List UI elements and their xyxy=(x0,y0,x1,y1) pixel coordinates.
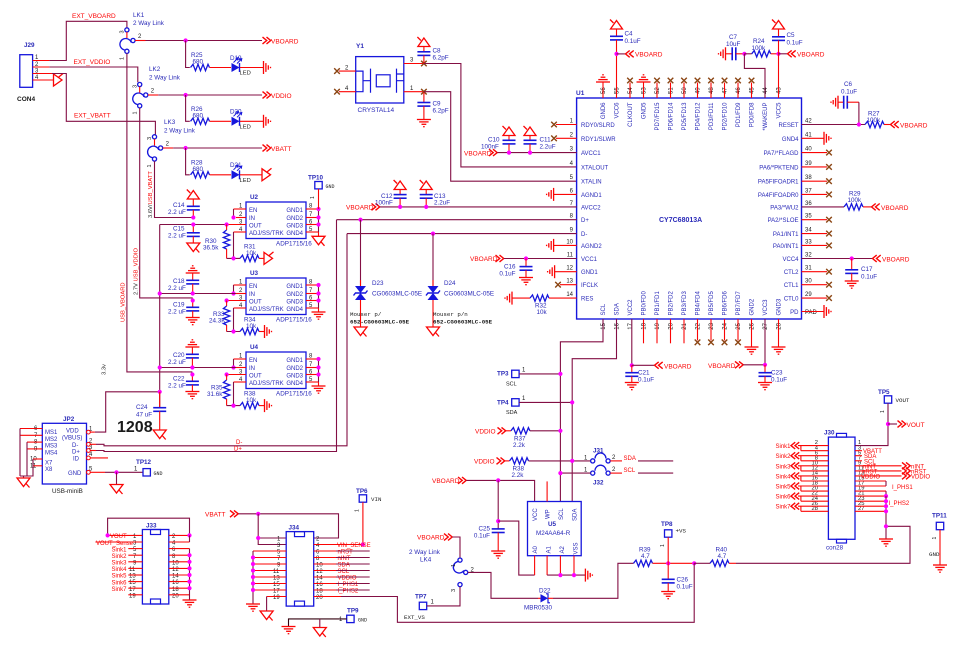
jumper J31 xyxy=(584,448,622,464)
svg-text:C19: C19 xyxy=(173,302,185,309)
svg-text:17: 17 xyxy=(273,589,280,595)
svg-text:AGND1: AGND1 xyxy=(581,193,602,199)
svg-text:20: 20 xyxy=(316,595,323,601)
svg-text:D+: D+ xyxy=(72,450,80,456)
net VDDIO arrow out xyxy=(902,473,910,480)
svg-text:J29: J29 xyxy=(24,42,35,49)
svg-text:C22: C22 xyxy=(173,376,185,383)
wire LK3 pin1 rail to U2 IN xyxy=(155,161,194,217)
U1 pin41 GND4 xyxy=(802,137,825,139)
svg-text:J30: J30 xyxy=(824,430,835,437)
wire U4 ADJ to R35/R36 node xyxy=(227,382,240,406)
svg-text:45: 45 xyxy=(750,87,756,94)
svg-text:C6: C6 xyxy=(844,81,853,88)
svg-text:GND2: GND2 xyxy=(286,216,303,222)
svg-text:C16: C16 xyxy=(504,264,516,271)
svg-text:Sink1: Sink1 xyxy=(775,444,791,450)
svg-text:11: 11 xyxy=(273,569,280,575)
svg-text:CTL0: CTL0 xyxy=(784,297,799,303)
svg-text:ID: ID xyxy=(73,457,80,463)
svg-text:GND: GND xyxy=(326,184,335,190)
svg-text:25: 25 xyxy=(736,322,742,329)
svg-text:10uF: 10uF xyxy=(726,41,741,48)
svg-text:0.1uF: 0.1uF xyxy=(841,89,857,96)
svg-text:CG0603MLC-05E: CG0603MLC-05E xyxy=(372,291,422,298)
wire JP2 MS pins to ground xyxy=(20,429,33,477)
svg-text:VBOARD: VBOARD xyxy=(882,257,910,264)
svg-text:1: 1 xyxy=(932,537,938,540)
svg-text:VBOARD: VBOARD xyxy=(881,205,909,212)
svg-text:Sink5: Sink5 xyxy=(111,574,127,580)
svg-text:20: 20 xyxy=(669,322,675,329)
svg-text:VBOARD: VBOARD xyxy=(635,52,663,59)
node junction row1 xyxy=(184,38,188,42)
wire U2 ADJ to R30/R31 node xyxy=(227,232,240,258)
svg-text:Sink4: Sink4 xyxy=(775,474,791,480)
svg-text:C4: C4 xyxy=(625,31,634,38)
svg-text:4.7: 4.7 xyxy=(641,553,650,560)
wire U3 ADJ to R33/R34 node xyxy=(227,308,240,332)
svg-text:10k: 10k xyxy=(537,309,548,316)
svg-text:PD6/FD14: PD6/FD14 xyxy=(669,102,675,131)
svg-text:PD2/FD10: PD2/FD10 xyxy=(723,102,729,131)
wire J34 pin19 to ground xyxy=(266,597,268,612)
net nINT arrow out xyxy=(902,462,910,469)
svg-text:GND4: GND4 xyxy=(782,137,799,143)
J34 pin stubs xyxy=(253,545,363,597)
svg-text:0.1uF: 0.1uF xyxy=(625,38,641,45)
svg-text:52: 52 xyxy=(655,87,661,94)
ground D23 xyxy=(354,327,367,337)
U1 bottom pin names and numbers xyxy=(601,290,783,329)
svg-text:MS2: MS2 xyxy=(45,437,58,443)
svg-text:0.1uF: 0.1uF xyxy=(771,377,787,384)
svg-text:+VS: +VS xyxy=(676,528,687,535)
U1 pin6 AGND1 xyxy=(554,193,577,195)
svg-text:I_PHS1: I_PHS1 xyxy=(338,582,359,588)
svg-text:VDDIO: VDDIO xyxy=(474,458,495,465)
wire J33 right ground rail rows 6-20 xyxy=(189,549,191,600)
svg-text:18: 18 xyxy=(316,589,323,595)
U1 pins 22-25 stubs with X xyxy=(695,319,741,345)
svg-text:CTL1: CTL1 xyxy=(784,283,799,289)
svg-text:ADJ/SS/TRK: ADJ/SS/TRK xyxy=(249,231,284,237)
ground for D20 xyxy=(264,115,271,128)
wire VBOARD row1 xyxy=(146,40,263,42)
svg-text:VBOARD: VBOARD xyxy=(271,39,299,46)
wire to R26 xyxy=(186,95,190,121)
svg-text:GND: GND xyxy=(358,618,367,624)
svg-text:0.1uF: 0.1uF xyxy=(677,584,693,591)
wire U5 A1-A2-VSS to ground xyxy=(547,574,585,576)
svg-text:USB-miniB: USB-miniB xyxy=(52,488,83,495)
2-way link LK3 xyxy=(147,119,196,168)
svg-text:X7: X7 xyxy=(45,461,53,467)
svg-text:Mouser p/: Mouser p/ xyxy=(350,311,382,318)
svg-text:PA5FIFOADR1: PA5FIFOADR1 xyxy=(758,180,799,186)
svg-text:38: 38 xyxy=(805,175,812,181)
svg-text:10: 10 xyxy=(316,563,323,569)
svg-text:EN: EN xyxy=(249,208,257,214)
svg-text:IN: IN xyxy=(249,292,255,298)
2-way link LK1 xyxy=(120,12,165,60)
net VDDIO arrow xyxy=(263,92,271,99)
wire SCL from pin15 xyxy=(560,319,603,502)
ground TP9 arrow xyxy=(313,628,326,638)
svg-text:3: 3 xyxy=(451,589,457,592)
svg-text:19: 19 xyxy=(273,595,280,601)
svg-text:WP: WP xyxy=(546,509,552,519)
net Sink1-7 labels J30 xyxy=(775,444,791,511)
svg-text:2 Way Link: 2 Way Link xyxy=(149,75,181,82)
svg-text:0.1uF: 0.1uF xyxy=(861,274,877,281)
svg-text:17: 17 xyxy=(628,322,634,329)
svg-text:GND3: GND3 xyxy=(286,374,303,380)
wire TP9 xyxy=(289,619,347,627)
U1 pins 31-29 stubs with X xyxy=(802,269,832,301)
wire U2 OUT rail down (VBUS) xyxy=(160,225,227,408)
svg-text:GND6: GND6 xyxy=(601,102,607,119)
svg-text:C8: C8 xyxy=(433,48,442,55)
svg-text:PA3/*WU2: PA3/*WU2 xyxy=(770,205,799,211)
svg-text:ADJ/SS/TRK: ADJ/SS/TRK xyxy=(249,307,284,313)
svg-text:PA0/INT1: PA0/INT1 xyxy=(773,244,799,250)
U1 pin13 IFCLK stub xyxy=(560,284,577,286)
svg-text:100nF: 100nF xyxy=(375,200,393,207)
svg-text:PD3/FD11: PD3/FD11 xyxy=(709,102,715,130)
U1 pin1 RDY0 stub xyxy=(556,124,577,126)
svg-text:12: 12 xyxy=(316,569,323,575)
svg-text:J34: J34 xyxy=(289,525,300,532)
svg-text:37: 37 xyxy=(805,188,812,194)
svg-text:2.2 uF: 2.2 uF xyxy=(168,359,186,366)
svg-text:26: 26 xyxy=(750,322,756,329)
net VBOARD at PA3 xyxy=(872,204,880,211)
svg-text:100nF: 100nF xyxy=(481,144,499,151)
svg-text:OUT: OUT xyxy=(249,374,262,380)
svg-text:0.1uF: 0.1uF xyxy=(787,40,803,47)
wire U1 D- pin9 xyxy=(347,233,577,235)
svg-text:VBATT: VBATT xyxy=(205,511,225,518)
wire U4 EN tie xyxy=(233,359,235,368)
J34 pin numbers xyxy=(273,537,323,602)
svg-text:CRYSTAL14: CRYSTAL14 xyxy=(358,107,395,114)
svg-text:SDA: SDA xyxy=(615,303,621,315)
svg-text:C9: C9 xyxy=(433,101,442,108)
svg-text:JP2: JP2 xyxy=(63,416,75,423)
svg-text:31: 31 xyxy=(805,266,812,272)
ground J33 xyxy=(183,600,197,607)
svg-text:35: 35 xyxy=(805,214,812,220)
svg-text:EXT_VS: EXT_VS xyxy=(404,614,425,621)
svg-text:GND3: GND3 xyxy=(777,298,783,315)
wire WAKEUP pin44 xyxy=(744,54,765,98)
ground JP2 shell xyxy=(17,478,30,488)
wire VBATT xyxy=(239,514,339,538)
svg-text:1: 1 xyxy=(132,111,138,114)
svg-text:LK1: LK1 xyxy=(133,12,145,19)
svg-text:VSS: VSS xyxy=(574,542,580,554)
jumper J32 xyxy=(558,465,622,486)
svg-text:0.1uF: 0.1uF xyxy=(499,271,515,278)
svg-text:VOUT: VOUT xyxy=(907,422,925,429)
svg-text:LED: LED xyxy=(240,124,251,130)
wire J30 I_PHS1 pair xyxy=(885,481,887,486)
svg-text:2.2 uF: 2.2 uF xyxy=(168,233,186,240)
svg-text:GND: GND xyxy=(154,471,163,477)
svg-text:1: 1 xyxy=(147,164,153,167)
svg-text:24: 24 xyxy=(723,322,729,329)
svg-text:MS4: MS4 xyxy=(45,450,58,456)
regulator U3 ADP1715 xyxy=(227,270,319,324)
svg-text:IFCLK: IFCLK xyxy=(581,283,598,289)
svg-text:TP9: TP9 xyxy=(347,608,359,615)
wire J30 I_PHS2 pair xyxy=(885,491,887,496)
svg-text:RESET: RESET xyxy=(778,123,798,129)
U1 pin10 AGND2 xyxy=(554,244,577,246)
svg-text:C15: C15 xyxy=(173,226,185,233)
svg-text:12: 12 xyxy=(566,266,573,272)
svg-text:PAD: PAD xyxy=(805,310,818,316)
wire J34 net rows xyxy=(336,551,370,590)
svg-text:Y1: Y1 xyxy=(356,43,364,50)
svg-text:TP3: TP3 xyxy=(497,371,509,378)
svg-text:D22: D22 xyxy=(539,588,551,595)
svg-text:OUT: OUT xyxy=(249,224,262,230)
svg-text:MS3: MS3 xyxy=(45,444,58,450)
svg-text:D-: D- xyxy=(581,232,587,238)
svg-text:I_PHS1: I_PHS1 xyxy=(892,485,913,491)
wire LK4 pin2 to D22 xyxy=(468,572,538,598)
U1 top pin names and numbers xyxy=(601,87,783,131)
svg-text:AGND2: AGND2 xyxy=(581,244,602,250)
wire to R25 xyxy=(186,41,190,68)
svg-text:36: 36 xyxy=(805,201,812,207)
svg-text:Sink5: Sink5 xyxy=(775,485,791,491)
svg-text:PB1/FD1: PB1/FD1 xyxy=(655,290,661,315)
svg-text:VIN: VIN xyxy=(371,496,382,503)
svg-text:TP6: TP6 xyxy=(356,488,368,495)
svg-text:29: 29 xyxy=(805,292,812,298)
svg-text:2.7V USB_VDDIO: 2.7V USB_VDDIO xyxy=(133,247,139,295)
svg-text:ADJ/SS/TRK: ADJ/SS/TRK xyxy=(249,381,284,387)
svg-text:652-CG0603MLC-05E: 652-CG0603MLC-05E xyxy=(350,319,410,326)
wire U3 IN from VBUS rail xyxy=(160,293,236,295)
svg-text:4.7: 4.7 xyxy=(718,553,727,560)
svg-text:2.2uF: 2.2uF xyxy=(540,144,556,151)
svg-text:VDDIO: VDDIO xyxy=(861,474,880,480)
svg-text:VDDIO: VDDIO xyxy=(271,93,292,100)
svg-text:GND1: GND1 xyxy=(286,208,303,214)
svg-text:D-: D- xyxy=(72,443,78,449)
wire U2 GND rail xyxy=(318,209,320,232)
svg-text:D23: D23 xyxy=(372,280,384,287)
svg-text:39: 39 xyxy=(805,161,812,167)
svg-text:IN: IN xyxy=(249,366,255,372)
svg-text:(VBUS): (VBUS) xyxy=(62,436,82,442)
svg-text:3: 3 xyxy=(132,85,138,88)
wire R40 to J30 xyxy=(736,526,910,563)
J33 pin stubs xyxy=(95,535,189,594)
svg-text:SCL: SCL xyxy=(506,382,517,388)
net VBOARD at VCC2 xyxy=(632,364,654,366)
ground at R36 xyxy=(265,399,272,412)
svg-text:VCC2: VCC2 xyxy=(628,299,634,316)
svg-text:33: 33 xyxy=(805,239,812,245)
svg-text:GND1: GND1 xyxy=(286,358,303,364)
svg-text:36.5k: 36.5k xyxy=(203,245,219,252)
net VBOARD at VCC6 xyxy=(617,53,626,55)
svg-text:42: 42 xyxy=(805,119,812,125)
svg-text:PA2/*SLOE: PA2/*SLOE xyxy=(768,218,799,224)
svg-text:2.2k: 2.2k xyxy=(512,472,525,479)
J33 pin numbers xyxy=(129,534,179,599)
svg-text:2 Way Link: 2 Way Link xyxy=(133,20,165,27)
svg-text:J32: J32 xyxy=(593,480,604,487)
svg-text:2.2 uF: 2.2 uF xyxy=(168,285,186,292)
svg-text:55: 55 xyxy=(615,87,621,94)
svg-text:2.2 uF: 2.2 uF xyxy=(168,309,186,316)
svg-text:2 Way Link: 2 Way Link xyxy=(164,128,196,135)
svg-text:40: 40 xyxy=(805,147,812,153)
wire EXT_VBOARD xyxy=(49,21,127,60)
power arrow at R31 xyxy=(264,252,274,265)
svg-text:CY7C68013A: CY7C68013A xyxy=(659,217,702,224)
svg-text:3: 3 xyxy=(120,30,126,33)
svg-text:IN: IN xyxy=(249,216,255,222)
U1 pin2 RDY1 stub xyxy=(556,137,577,139)
svg-text:VOUT: VOUT xyxy=(896,397,910,404)
wire VBATT row3 xyxy=(173,147,262,149)
svg-text:VBOARD: VBOARD xyxy=(417,535,445,542)
svg-text:VBOARD: VBOARD xyxy=(470,256,498,263)
svg-text:C14: C14 xyxy=(173,202,185,209)
ground U3 xyxy=(312,312,326,319)
node junction row3 xyxy=(184,146,188,150)
wire EXT_VDDIO xyxy=(49,67,137,82)
wire D- from JP2 to U1 xyxy=(96,234,347,446)
svg-text:Sink2: Sink2 xyxy=(775,454,791,460)
svg-text:TP4: TP4 xyxy=(497,400,509,407)
svg-text:Sink3: Sink3 xyxy=(111,561,127,567)
svg-text:GND5: GND5 xyxy=(642,102,648,119)
U1 pin12 GND1 xyxy=(555,271,577,273)
svg-text:XTALOUT: XTALOUT xyxy=(581,165,609,171)
wire EXT_VBATT xyxy=(52,74,155,135)
wire JP2 GND to TP12 xyxy=(105,471,143,473)
svg-text:U2: U2 xyxy=(250,194,259,201)
svg-text:ADP1715/16: ADP1715/16 xyxy=(276,317,312,324)
svg-text:VDDIO: VDDIO xyxy=(475,428,496,435)
ground U2 xyxy=(312,236,325,246)
net VBOARD at VCC5 xyxy=(779,53,788,55)
svg-text:con28: con28 xyxy=(826,545,844,552)
J30 right stubs xyxy=(855,451,902,512)
connector J30 con28 xyxy=(824,430,855,552)
svg-text:1: 1 xyxy=(880,410,886,413)
svg-text:31.6k: 31.6k xyxy=(207,391,223,398)
svg-text:41: 41 xyxy=(805,132,812,138)
net VBOARD arrow xyxy=(263,37,271,44)
svg-text:GND1: GND1 xyxy=(286,284,303,290)
node crystal pin1 xyxy=(421,89,427,95)
svg-text:C5: C5 xyxy=(787,32,796,39)
svg-text:44: 44 xyxy=(763,87,769,94)
svg-text:U4: U4 xyxy=(250,344,259,351)
no-connect X crystal pin4 xyxy=(334,89,340,95)
svg-text:Sink7: Sink7 xyxy=(775,505,791,511)
U1 PAD pin ground xyxy=(802,311,825,313)
svg-text:Sink1: Sink1 xyxy=(111,547,127,553)
svg-text:21: 21 xyxy=(682,322,688,329)
svg-text:GND3: GND3 xyxy=(286,224,303,230)
ground GND3 pin28 xyxy=(778,319,780,347)
wire U2 EN tie xyxy=(233,209,235,218)
wire U4 IN from VBUS rail xyxy=(160,367,236,369)
svg-text:3.3v: 3.3v xyxy=(102,364,108,375)
svg-text:13: 13 xyxy=(566,279,573,285)
svg-text:0.1uF: 0.1uF xyxy=(638,377,654,384)
svg-text:C24: C24 xyxy=(136,404,148,411)
svg-text:18: 18 xyxy=(642,322,648,329)
svg-text:I_PHS2: I_PHS2 xyxy=(889,501,910,507)
U1 pins 52-45 stubs with X xyxy=(654,78,754,98)
svg-text:1: 1 xyxy=(355,509,361,512)
svg-text:AVCC1: AVCC1 xyxy=(581,151,601,157)
regulator U4 ADP1715 xyxy=(227,344,319,398)
J30 left pin stubs and sink pairs xyxy=(798,446,828,512)
wire LK1 pin1 rail to U4 OUT (USB_VBOARD 3.3V) xyxy=(127,53,192,372)
svg-text:GND2: GND2 xyxy=(286,366,303,372)
svg-text:14: 14 xyxy=(566,292,573,298)
wire RESET pin42 xyxy=(802,102,866,124)
svg-text:XTALIN: XTALIN xyxy=(581,180,602,186)
svg-text:VCC6: VCC6 xyxy=(615,102,621,119)
ground U4 xyxy=(312,386,326,393)
wire U1 D+ pin8 xyxy=(337,219,577,221)
ground C24 xyxy=(153,430,166,440)
svg-text:VBOARD: VBOARD xyxy=(797,52,825,59)
svg-text:34: 34 xyxy=(805,228,812,234)
regulator U2 ADP1715 xyxy=(227,194,319,248)
svg-text:19: 19 xyxy=(655,322,661,329)
svg-text:32: 32 xyxy=(805,253,812,259)
svg-text:PD: PD xyxy=(790,310,799,316)
svg-text:C25: C25 xyxy=(478,526,490,533)
svg-text:1: 1 xyxy=(120,57,126,60)
svg-text:GND: GND xyxy=(929,551,940,558)
svg-text:1208: 1208 xyxy=(117,419,153,436)
svg-text:EN: EN xyxy=(249,284,257,290)
svg-text:53: 53 xyxy=(642,87,648,94)
svg-text:C26: C26 xyxy=(677,577,689,584)
svg-text:VBOARD: VBOARD xyxy=(464,151,492,158)
svg-text:1: 1 xyxy=(660,544,666,547)
svg-text:SCL: SCL xyxy=(338,569,350,575)
svg-text:GND: GND xyxy=(68,471,82,477)
wire SDA out of J31 xyxy=(638,460,673,462)
EEPROM U5 M24AA64 xyxy=(528,481,582,575)
net labels J30 right xyxy=(861,449,882,480)
svg-text:13: 13 xyxy=(273,576,280,582)
svg-text:2 Way Link: 2 Way Link xyxy=(409,549,441,556)
svg-text:2.2uF: 2.2uF xyxy=(434,200,450,207)
svg-text:1: 1 xyxy=(310,196,316,199)
svg-text:SDA: SDA xyxy=(338,563,350,569)
svg-text:GND4: GND4 xyxy=(286,307,303,313)
wire VDDIO row2 xyxy=(158,94,262,96)
svg-text:TP7: TP7 xyxy=(415,594,427,601)
